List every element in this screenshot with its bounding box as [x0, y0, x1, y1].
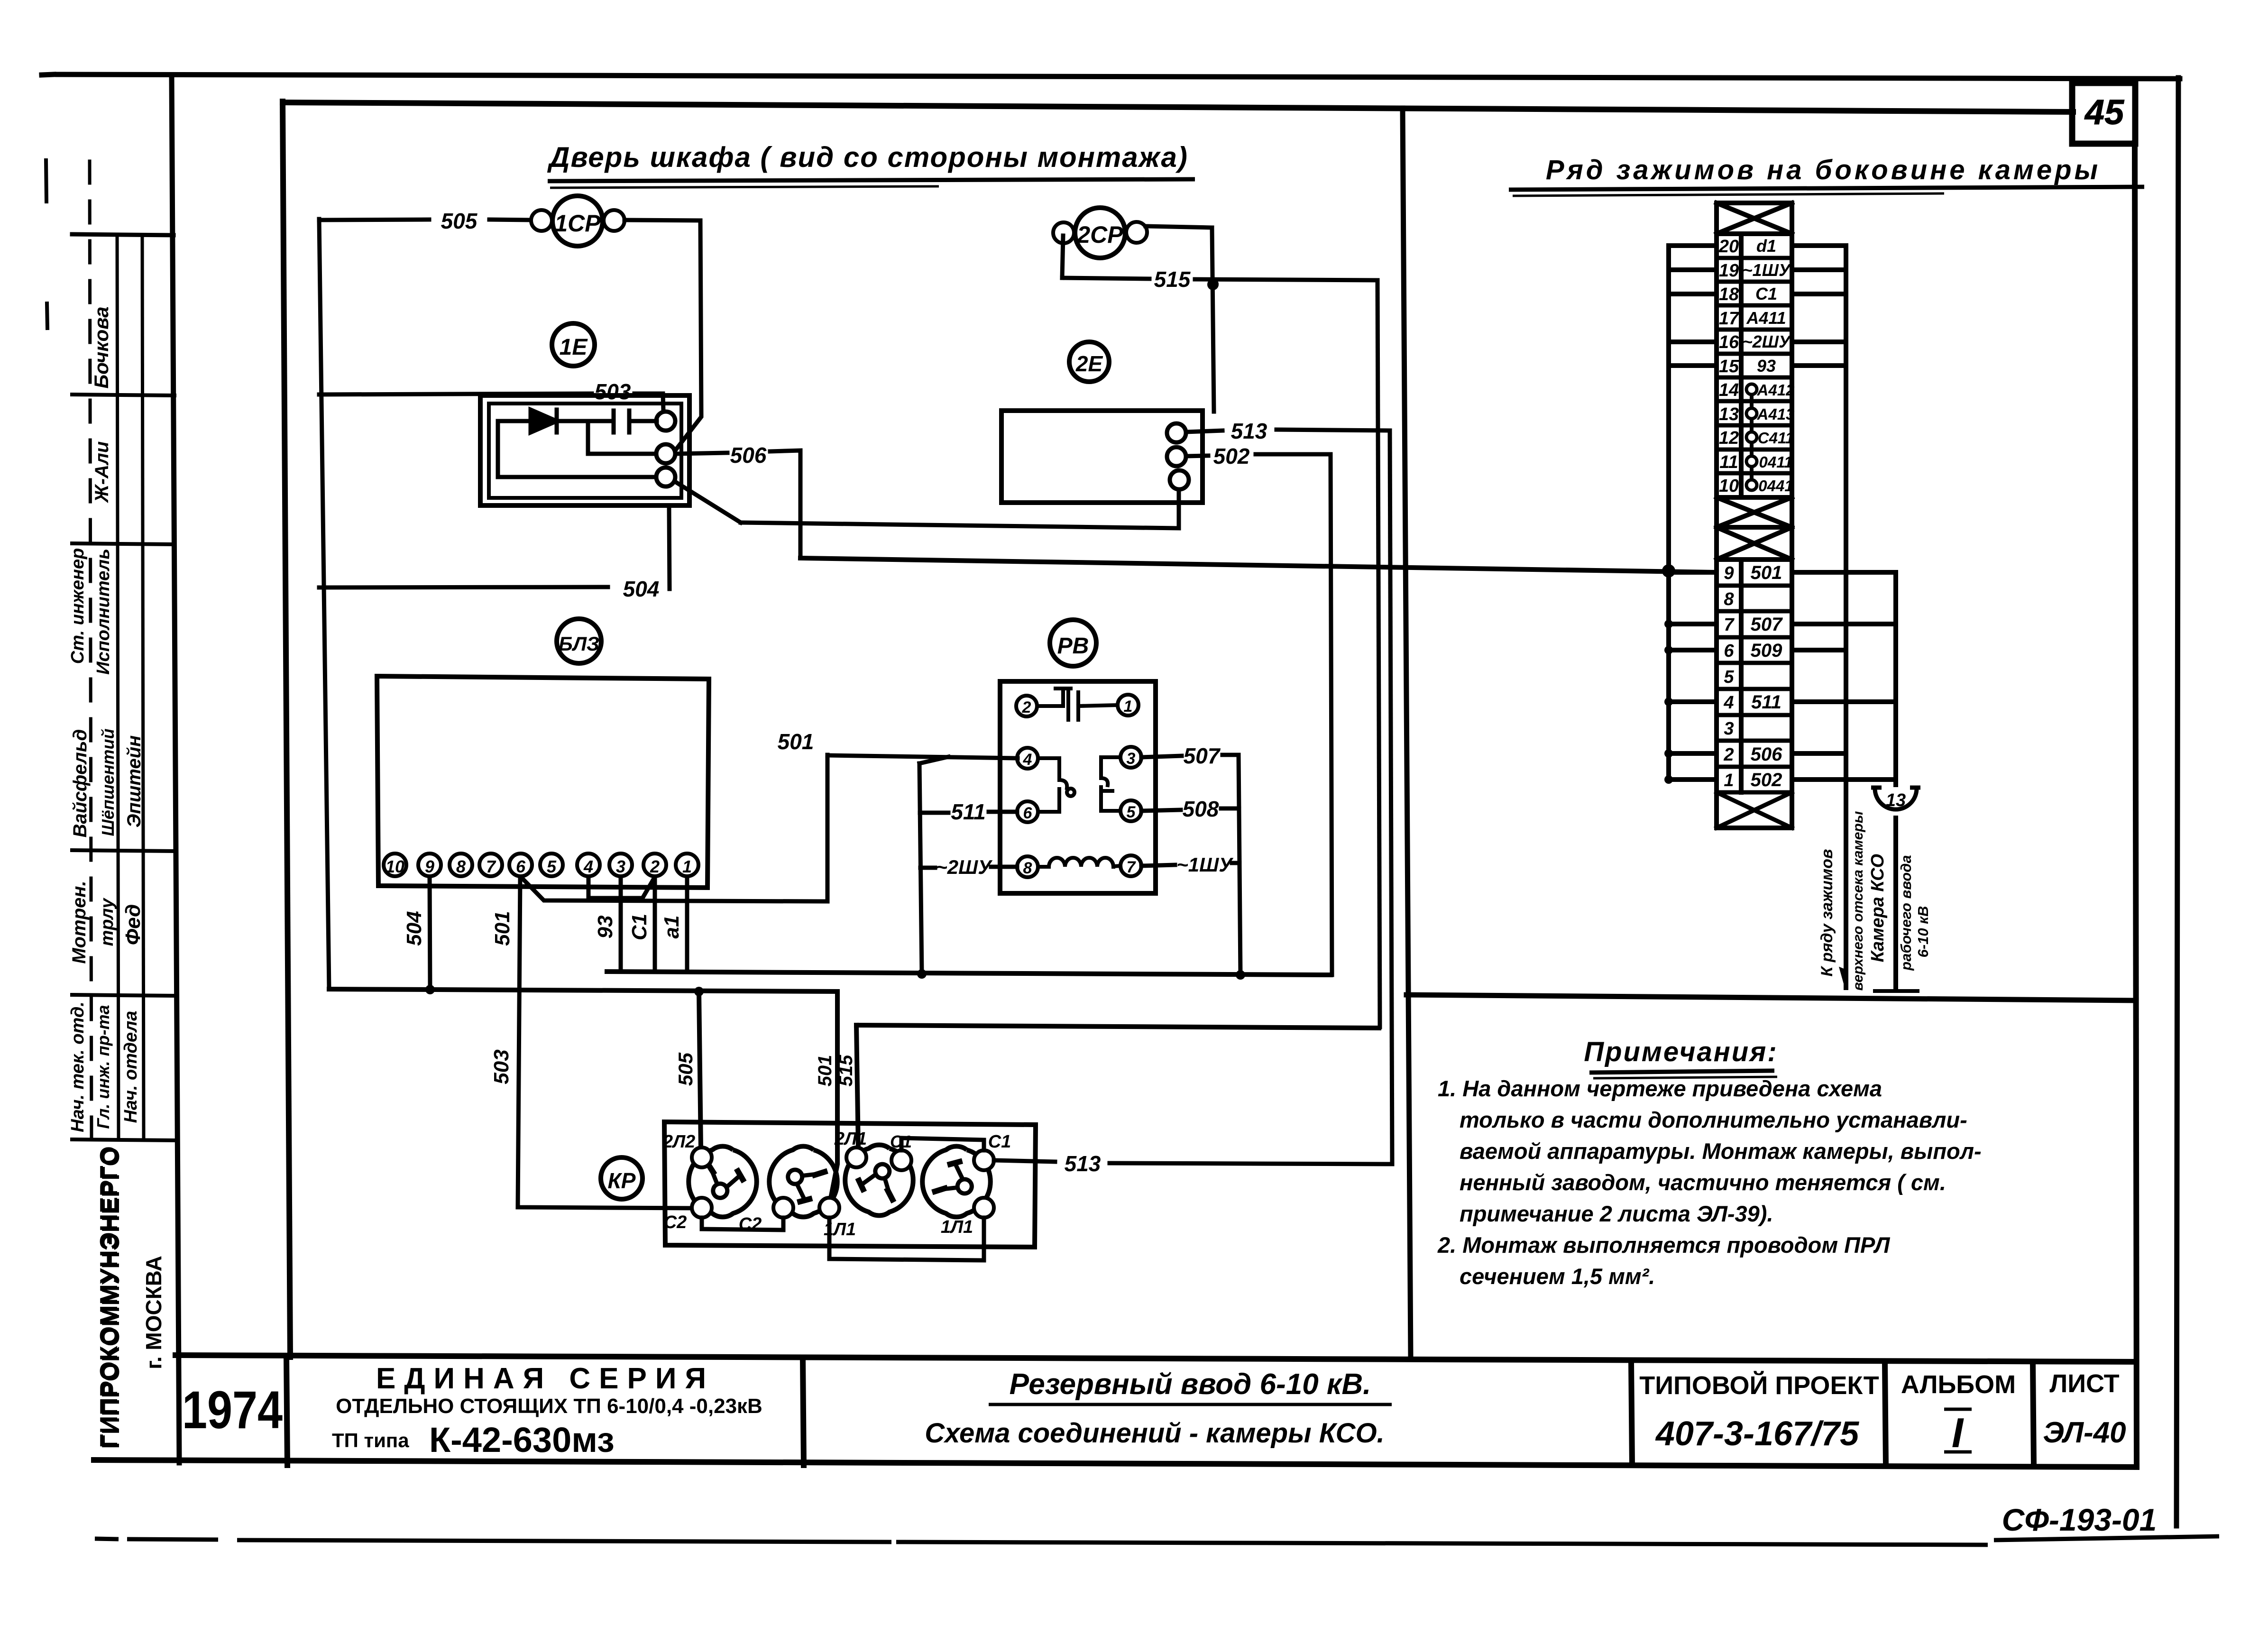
svg-text:3: 3: [1127, 750, 1136, 768]
terminal strip top X box: [1717, 231, 1792, 236]
relay 1E inner box: [489, 404, 681, 498]
svg-text:5: 5: [547, 857, 557, 876]
title block year cell divider: [286, 1357, 287, 1465]
wire: right stub terminal 4: [1792, 699, 1896, 704]
junction: bus junction 504: [425, 985, 435, 994]
border: outer right line: [2176, 78, 2178, 1526]
frame: inner drawing frame left edge: [283, 101, 290, 1357]
lamp 1SR body: [552, 196, 603, 246]
svg-text:2Л2: 2Л2: [662, 1132, 695, 1152]
2E contact top: [1167, 423, 1186, 442]
junction: left bracket terminal 9: [1664, 568, 1673, 577]
bus A: nets 93/C1/a1 to RV area: [607, 972, 1331, 975]
frame: inner drawing frame right edge: [2135, 143, 2137, 1467]
svg-text:С1: С1: [628, 914, 651, 940]
svg-text:С411: С411: [1758, 429, 1794, 447]
svg-text:только в части дополнительн: только в части дополнительно устанавли-: [1460, 1107, 1967, 1132]
wire: net ~2ShU stub to RV pin 8: [920, 866, 935, 870]
svg-text:Мотрен.: Мотрен.: [69, 881, 90, 964]
sheet number box 45: [2072, 83, 2135, 144]
svg-text:4: 4: [583, 857, 593, 876]
BLZ pin 3: [609, 854, 632, 876]
2E contact bottom: [1170, 470, 1189, 489]
svg-text:14: 14: [1719, 380, 1739, 400]
svg-text:508: 508: [1183, 797, 1219, 821]
svg-text:93: 93: [1757, 356, 1776, 376]
svg-text:сечением 1,5 мм².: сечением 1,5 мм².: [1460, 1264, 1655, 1289]
lamp 1SR left terminal circle: [531, 210, 552, 231]
terminal strip row line above row 5: [1717, 661, 1792, 665]
capacitor 1E: [612, 411, 616, 432]
svg-text:7: 7: [486, 857, 496, 876]
svg-text:17: 17: [1719, 309, 1740, 329]
svg-text:16: 16: [1719, 332, 1739, 352]
svg-text:А412: А412: [1757, 381, 1795, 399]
svg-text:Нач. отдела: Нач. отдела: [121, 1011, 141, 1123]
svg-text:Ж-Али: Ж-Али: [92, 441, 112, 504]
svg-text:10: 10: [386, 857, 404, 876]
wire: left stub terminal 4: [1669, 699, 1717, 704]
signature table row rule under signature: [72, 543, 174, 544]
border: bottom line of sheet / title block bottom: [94, 1460, 2136, 1467]
wire: net 505 horizontal to lamp 1SR: [319, 220, 429, 220]
wire: left loop vertical (net 505/504 riser): [319, 219, 329, 989]
svg-text:~2ШУ: ~2ШУ: [1743, 332, 1791, 351]
svg-text:2. Монтаж выполняется прово: 2. Монтаж выполняется проводом ПРЛ: [1437, 1232, 1891, 1257]
BLZ pin 1: [676, 854, 698, 876]
divider: vertical line between door schematic and terminal row section: [1403, 108, 1411, 1357]
terminal strip middle X boxes: [1717, 495, 1792, 500]
BLZ pin 8: [450, 854, 472, 876]
RV pin 8: [1017, 856, 1038, 877]
svg-text:К-42-630мз: К-42-630мз: [429, 1420, 615, 1459]
svg-text:1Л1: 1Л1: [824, 1220, 856, 1239]
wire: right stub terminal 19: [1792, 267, 1846, 272]
svg-text:511: 511: [951, 799, 985, 824]
lamp 2SR body: [1075, 208, 1125, 258]
svg-text:513: 513: [1231, 419, 1267, 443]
wire: left stub terminal 9: [1669, 570, 1717, 575]
junction: bus junction 505: [694, 987, 704, 996]
svg-text:ЕДИНАЯ СЕРИЯ: ЕДИНАЯ СЕРИЯ: [376, 1362, 715, 1395]
arrow head of upper compartment wire: [1840, 968, 1846, 989]
svg-text:К ряду зажимов: К ряду зажимов: [1818, 849, 1836, 976]
wire: left stub terminal 2: [1669, 751, 1717, 756]
KR terminal cam2 bottom-left: [773, 1198, 793, 1218]
wire: net ~1ShU from RV pin 7: [1141, 865, 1175, 866]
wire: net 502 from 2E middle contact: [1186, 456, 1208, 456]
wire: net 513 long vertical: [1390, 431, 1392, 1164]
wire: right stub terminal 1: [1792, 777, 1896, 782]
svg-text:рабочего ввода: рабочего ввода: [1898, 855, 1914, 971]
wire: BLZ pin 1 drop (net a1): [685, 877, 689, 972]
RV pin 2: [1016, 696, 1037, 716]
svg-text:Исполнитель: Исполнитель: [93, 549, 113, 675]
border: main left vertical rule: [172, 75, 179, 1463]
svg-text:13: 13: [1719, 404, 1739, 424]
svg-text:45: 45: [2084, 92, 2125, 132]
wire: vertical drop from 1SR wire to 1E middle contact: [675, 220, 701, 450]
svg-text:~1ШУ: ~1ШУ: [1743, 260, 1791, 280]
svg-text:4: 4: [1023, 751, 1032, 769]
relay RV box: [1000, 681, 1156, 893]
signature table signature table bottom rule: [72, 1139, 174, 1140]
svg-text:505: 505: [441, 209, 478, 233]
1E contact bottom: [656, 468, 675, 486]
RV internal capacitor between pins 2 and 1: [1037, 704, 1063, 708]
svg-text:трлу: трлу: [97, 898, 117, 946]
svg-text:511: 511: [1751, 692, 1781, 713]
svg-text:8: 8: [456, 857, 466, 876]
terminal strip row line above row 18: [1717, 280, 1792, 284]
svg-text:С2: С2: [664, 1212, 687, 1232]
svg-text:ЭЛ-40: ЭЛ-40: [2043, 1416, 2126, 1449]
KR terminal cam3 top-left: [846, 1147, 866, 1167]
svg-text:Примечания:: Примечания:: [1584, 1037, 1778, 1067]
wire: BLZ pin 2 drop (net C1): [653, 877, 657, 972]
KR terminal cam2 bottom-right: [819, 1198, 839, 1218]
svg-text:1. На данном чертеже приве: 1. На данном чертеже приведена схема: [1438, 1076, 1882, 1101]
svg-text:11: 11: [1719, 452, 1738, 472]
terminal strip bottom X box: [1717, 790, 1792, 795]
KR terminal cam4 top-right: [974, 1150, 994, 1170]
svg-text:13: 13: [1886, 790, 1906, 810]
svg-text:501: 501: [778, 729, 814, 754]
svg-text:Шёпшентий: Шёпшентий: [98, 728, 118, 836]
wire: KR jumper cam3 top-right to S1: [901, 1138, 984, 1150]
svg-text:503: 503: [595, 379, 631, 404]
svg-text:1Л1: 1Л1: [941, 1217, 973, 1237]
svg-text:КР: КР: [608, 1168, 636, 1193]
svg-text:1974: 1974: [182, 1380, 283, 1440]
wire: net 515 drop to KR: [856, 1025, 858, 1148]
KR terminal cam1 top-left: [692, 1147, 712, 1167]
switch KR designator circle: [601, 1157, 643, 1199]
svg-text:А413: А413: [1757, 405, 1795, 423]
title block series cell divider: [803, 1359, 804, 1465]
svg-text:2: 2: [1723, 745, 1734, 765]
wire: BLZ pin 6 to RV pin 4 (net 501): [522, 755, 827, 901]
switch KR box: [664, 1122, 1036, 1247]
svg-text:1: 1: [1724, 771, 1734, 790]
svg-text:а1: а1: [660, 916, 683, 939]
KR cam switch 4 (S1/1L1): [922, 1146, 990, 1217]
lamp 2SR left terminal circle: [1053, 222, 1074, 243]
svg-text:0411: 0411: [1759, 453, 1793, 471]
wire: left stub terminal 1: [1669, 777, 1717, 782]
RV pin 3: [1120, 747, 1141, 768]
svg-text:I: I: [1952, 1409, 1964, 1456]
svg-text:БЛЗ: БЛЗ: [559, 633, 599, 655]
BLZ pin 9: [418, 854, 441, 876]
underline bar of Kamera KSO note: [1873, 989, 1919, 993]
svg-text:5: 5: [1724, 667, 1734, 687]
RV pin 7: [1120, 855, 1141, 876]
svg-text:С2: С2: [739, 1214, 762, 1234]
RV pin 5: [1120, 800, 1141, 821]
relay BLZ box: [377, 676, 709, 888]
svg-text:примечание 2 листа ЭЛ-39).: примечание 2 листа ЭЛ-39).: [1460, 1201, 1773, 1226]
svg-text:ненный заводом, частично те: ненный заводом, частично теняется ( см.: [1460, 1170, 1946, 1195]
svg-text:20: 20: [1718, 237, 1739, 257]
svg-text:Эпштейн: Эпштейн: [124, 735, 145, 828]
wire: left stub terminal 18: [1669, 292, 1717, 296]
bus B: nets 504/505/501 lower bus: [329, 989, 837, 991]
wire: BLZ pin 3 drop (net 93): [619, 877, 623, 972]
svg-text:Резервный ввод 6-10 кВ.: Резервный ввод 6-10 кВ.: [1010, 1368, 1371, 1401]
wire: net 504 horizontal: [319, 587, 608, 587]
relay 2E designator circle: [1069, 342, 1109, 382]
svg-text:8: 8: [1023, 859, 1032, 877]
svg-text:504: 504: [623, 577, 660, 601]
page edge dash marks: [46, 160, 46, 202]
junction: 515 and 2SR right drop: [1207, 279, 1219, 290]
lamp 1SR right terminal circle: [604, 210, 624, 231]
wire: left bracket vertical on terminal strip: [1666, 246, 1671, 780]
svg-text:2: 2: [650, 857, 660, 876]
border: outer top line: [42, 74, 54, 75]
wire: net 505 drop to KR: [699, 991, 701, 1148]
svg-text:2Л1: 2Л1: [834, 1129, 867, 1149]
bottom perforation line: [95, 1536, 2219, 1545]
terminal strip row line above row 7: [1717, 609, 1792, 614]
wire: net 515 horizontal: [1062, 278, 1149, 279]
signature table column rule 3: [142, 236, 144, 1139]
RV internal contact pins 4-6: [1038, 758, 1059, 780]
KR terminal cam1 bottom-left: [692, 1198, 712, 1218]
svg-text:0441: 0441: [1758, 477, 1793, 495]
wire: net 515 long vertical: [1377, 280, 1380, 1027]
svg-text:2СР: 2СР: [1076, 221, 1123, 248]
svg-text:504: 504: [403, 911, 426, 945]
wire: 1E internal middle branch: [588, 421, 656, 454]
svg-text:506: 506: [730, 443, 767, 468]
svg-text:515: 515: [1154, 267, 1191, 292]
svg-text:6: 6: [1023, 804, 1033, 822]
BLZ pin 7: [479, 854, 502, 876]
wire: net 513 from 2E top contact: [1186, 431, 1222, 432]
junction: left bracket terminal 6: [1664, 646, 1673, 654]
svg-text:19: 19: [1719, 261, 1739, 281]
wire: KR jumper cam1 to cam2 bottom: [702, 1218, 783, 1230]
svg-text:5: 5: [1127, 803, 1136, 821]
wire: net 507 from RV pin 3: [1141, 756, 1182, 757]
wire: net 504 vertical stub to 1E box: [669, 507, 670, 589]
junction: left bracket terminal 7: [1664, 620, 1673, 628]
junction: bus to left bracket at terminal 9: [1662, 564, 1675, 578]
wire: net 503 horizontal: [319, 394, 592, 395]
wire: right stub terminal 16: [1792, 340, 1846, 344]
svg-text:502: 502: [1213, 444, 1250, 468]
junction: bus junction RV right: [1236, 970, 1245, 980]
wire: diagonal from 1E bottom contact toward 2E: [675, 482, 741, 523]
svg-text:507: 507: [1184, 743, 1221, 768]
terminal strip number column divider: [1739, 234, 1744, 497]
1E contact top: [656, 412, 675, 431]
terminal strip outline: [1717, 203, 1792, 828]
svg-text:503: 503: [490, 1049, 513, 1084]
svg-text:6: 6: [516, 857, 526, 876]
svg-text:Дверь шкафа ( вид со сторо: Дверь шкафа ( вид со стороны монтажа): [547, 141, 1188, 173]
svg-text:Вайсфельд: Вайсфельд: [70, 729, 91, 838]
relay 1E designator circle: [552, 323, 595, 366]
terminal strip row line above row 15: [1717, 352, 1792, 356]
terminal strip row line above row 10: [1717, 471, 1792, 476]
svg-text:С1: С1: [890, 1132, 912, 1151]
RV pin 6: [1017, 801, 1038, 822]
svg-text:2Е: 2Е: [1075, 351, 1103, 376]
svg-text:1Е: 1Е: [560, 335, 588, 360]
wire: right stub terminal 6: [1792, 648, 1846, 652]
svg-text:3: 3: [1724, 719, 1734, 739]
svg-text:12: 12: [1719, 428, 1739, 448]
junction: left bracket terminal 2: [1664, 749, 1673, 758]
wire: right stub terminal 15: [1792, 363, 1846, 368]
svg-text:d1: d1: [1756, 236, 1776, 256]
terminal strip row line above row 16: [1717, 328, 1792, 332]
junction: bus junction RV left: [917, 969, 927, 979]
terminal strip row line above row 12: [1717, 423, 1792, 428]
terminal strip row line above row 11: [1717, 448, 1792, 452]
BLZ pin 2: [643, 854, 666, 876]
terminal strip row line above row 6: [1717, 635, 1792, 640]
svg-text:Гл. инж. пр-та: Гл. инж. пр-та: [93, 1005, 113, 1129]
svg-text:А411: А411: [1746, 308, 1786, 328]
divider: horizontal line above notes section: [1406, 995, 2136, 1000]
svg-text:7: 7: [1127, 858, 1137, 876]
svg-text:Ряд зажимов на боковине ка: Ряд зажимов на боковине камеры: [1546, 155, 2101, 185]
wire: net 506 from 1E middle contact: [675, 453, 727, 454]
svg-text:ГИПРОКОММУНЭНЕРГО: ГИПРОКОММУНЭНЕРГО: [97, 1147, 125, 1449]
BLZ pin 10: [384, 854, 406, 876]
KR cam switch 1 (2L2/S2): [689, 1146, 756, 1217]
relay RV designator circle: [1050, 620, 1096, 666]
terminal strip row line above row 3: [1717, 713, 1792, 717]
RV pin 1: [1118, 695, 1139, 716]
svg-text:Бочкова: Бочкова: [90, 307, 112, 389]
terminal strip row line above row 8: [1717, 584, 1792, 588]
svg-text:верхнего отсека камеры: верхнего отсека камеры: [1850, 811, 1866, 991]
wire: right stub terminal 2: [1792, 751, 1846, 756]
cable marker 13 half circle: [1875, 789, 1917, 809]
relay 1E outer box: [480, 395, 689, 505]
svg-text:506: 506: [1751, 744, 1782, 765]
svg-text:Фед: Фед: [121, 904, 145, 945]
wire: right stub terminal 18: [1792, 292, 1846, 296]
wire: BLZ jumper pin4-pin2: [588, 877, 654, 898]
signature table top rule: [72, 234, 174, 235]
svg-text:АЛЬБОМ: АЛЬБОМ: [1901, 1370, 2016, 1399]
svg-text:3: 3: [616, 857, 625, 876]
wire: 2SR left terminal down to net 515: [1062, 236, 1063, 278]
title block project cell divider: [1631, 1362, 1632, 1465]
svg-text:6-10 кВ: 6-10 кВ: [1915, 906, 1931, 958]
svg-text:~2ШУ: ~2ШУ: [936, 856, 993, 878]
svg-text:507: 507: [1751, 614, 1783, 635]
1E contact middle: [656, 444, 675, 463]
wire: right stub terminal 9: [1792, 570, 1896, 575]
junction: left bracket terminal 4: [1664, 698, 1673, 706]
svg-text:С1: С1: [1755, 284, 1777, 303]
wire: 1SR to right corner: [624, 220, 700, 220]
wire: net 501 drop to KR: [831, 991, 837, 1198]
svg-text:10: 10: [1719, 476, 1739, 496]
svg-text:513: 513: [1065, 1151, 1101, 1176]
wire: right stub terminal 7: [1792, 622, 1896, 626]
svg-text:1СР: 1СР: [554, 210, 601, 237]
svg-text:ваемой аппаратуры. Монтаж к: ваемой аппаратуры. Монтаж камеры, выпол-: [1460, 1138, 1982, 1164]
svg-text:8: 8: [1724, 589, 1734, 609]
RV internal contact pins 3-5: [1101, 757, 1120, 778]
signature table row rule under Bochkova: [72, 395, 174, 395]
wire: 1E internal top rail: [498, 419, 614, 423]
wire: right vertical to upper compartment row: [1844, 246, 1848, 988]
wire: 1E internal loop: [498, 421, 656, 477]
terminal strip jumper chain circles rows 14-10: [1746, 384, 1757, 490]
wire: left stub terminal 15: [1669, 363, 1717, 368]
wire: kamera KSO vertical: [1893, 572, 1898, 785]
wire: left stub terminal 19: [1669, 267, 1717, 272]
svg-text:ОТДЕЛЬНО СТОЯЩИХ ТП 6-10/0,4: ОТДЕЛЬНО СТОЯЩИХ ТП 6-10/0,4 -0,23кВ: [336, 1395, 762, 1418]
wire: left stub terminal 20: [1669, 243, 1717, 248]
wire: KR jumper cam2 to cam4 bottom: [829, 1218, 984, 1260]
svg-text:515: 515: [836, 1055, 856, 1086]
relay 2E box: [1001, 411, 1203, 503]
svg-text:СФ-193-01: СФ-193-01: [2002, 1502, 2157, 1537]
svg-text:Нач. тек. отд.: Нач. тек. отд.: [68, 1001, 88, 1132]
wire: left stub terminal 7: [1669, 622, 1717, 626]
bus: net 501 long horizontal to terminal 9: [800, 558, 1717, 572]
svg-text:501: 501: [491, 911, 514, 945]
svg-text:ЛИСТ: ЛИСТ: [2049, 1369, 2119, 1398]
junction: left bracket terminal 1: [1664, 775, 1673, 784]
title block list cell divider: [2033, 1363, 2034, 1465]
signature table column rule 2: [117, 236, 119, 1139]
title block top line: [175, 1355, 2136, 1362]
svg-text:501: 501: [815, 1055, 836, 1087]
svg-text:1: 1: [1124, 698, 1133, 716]
svg-text:Ст. инженер: Ст. инженер: [68, 548, 88, 664]
wire: right stub terminal 20: [1792, 243, 1846, 248]
svg-text:РВ: РВ: [1057, 633, 1089, 659]
RV internal coil pins 8-7: [1038, 865, 1049, 869]
svg-text:18: 18: [1719, 285, 1739, 304]
svg-text:г. МОСКВА: г. МОСКВА: [141, 1256, 166, 1369]
wire: left stub terminal 6: [1669, 648, 1717, 652]
svg-text:9: 9: [1724, 563, 1734, 583]
svg-text:Схема соединений - камеры КС: Схема соединений - камеры КСО.: [925, 1418, 1385, 1449]
svg-text:7: 7: [1724, 615, 1735, 635]
BLZ pin 6: [509, 854, 532, 876]
wire: BLZ pin 6 drop (net 501/503 riser): [518, 877, 692, 1208]
svg-text:1: 1: [682, 857, 692, 876]
terminal strip row line above row 1: [1717, 765, 1792, 769]
terminal strip row line above row 13: [1717, 399, 1792, 404]
svg-text:~1ШУ: ~1ШУ: [1176, 854, 1234, 876]
wire: left stub terminal 16: [1669, 340, 1717, 344]
svg-text:502: 502: [1751, 770, 1782, 790]
wire: net 508 from RV pin 5: [1141, 810, 1181, 811]
KR terminal cam3 top-right: [891, 1150, 911, 1170]
terminal strip row line above row 4: [1717, 687, 1792, 691]
wire: net 511 stub to RV pin 6: [920, 811, 948, 815]
RV pin 4: [1017, 748, 1038, 769]
svg-text:С1: С1: [988, 1132, 1011, 1152]
relay BLZ designator circle: [557, 619, 601, 663]
junction: junction 515/2SR: [1209, 279, 1219, 289]
svg-text:ТИПОВОЙ ПРОЕКТ: ТИПОВОЙ ПРОЕКТ: [1639, 1371, 1879, 1400]
wire: horizontal link 1E bottom contact to 2E bottom contact: [741, 489, 1179, 528]
